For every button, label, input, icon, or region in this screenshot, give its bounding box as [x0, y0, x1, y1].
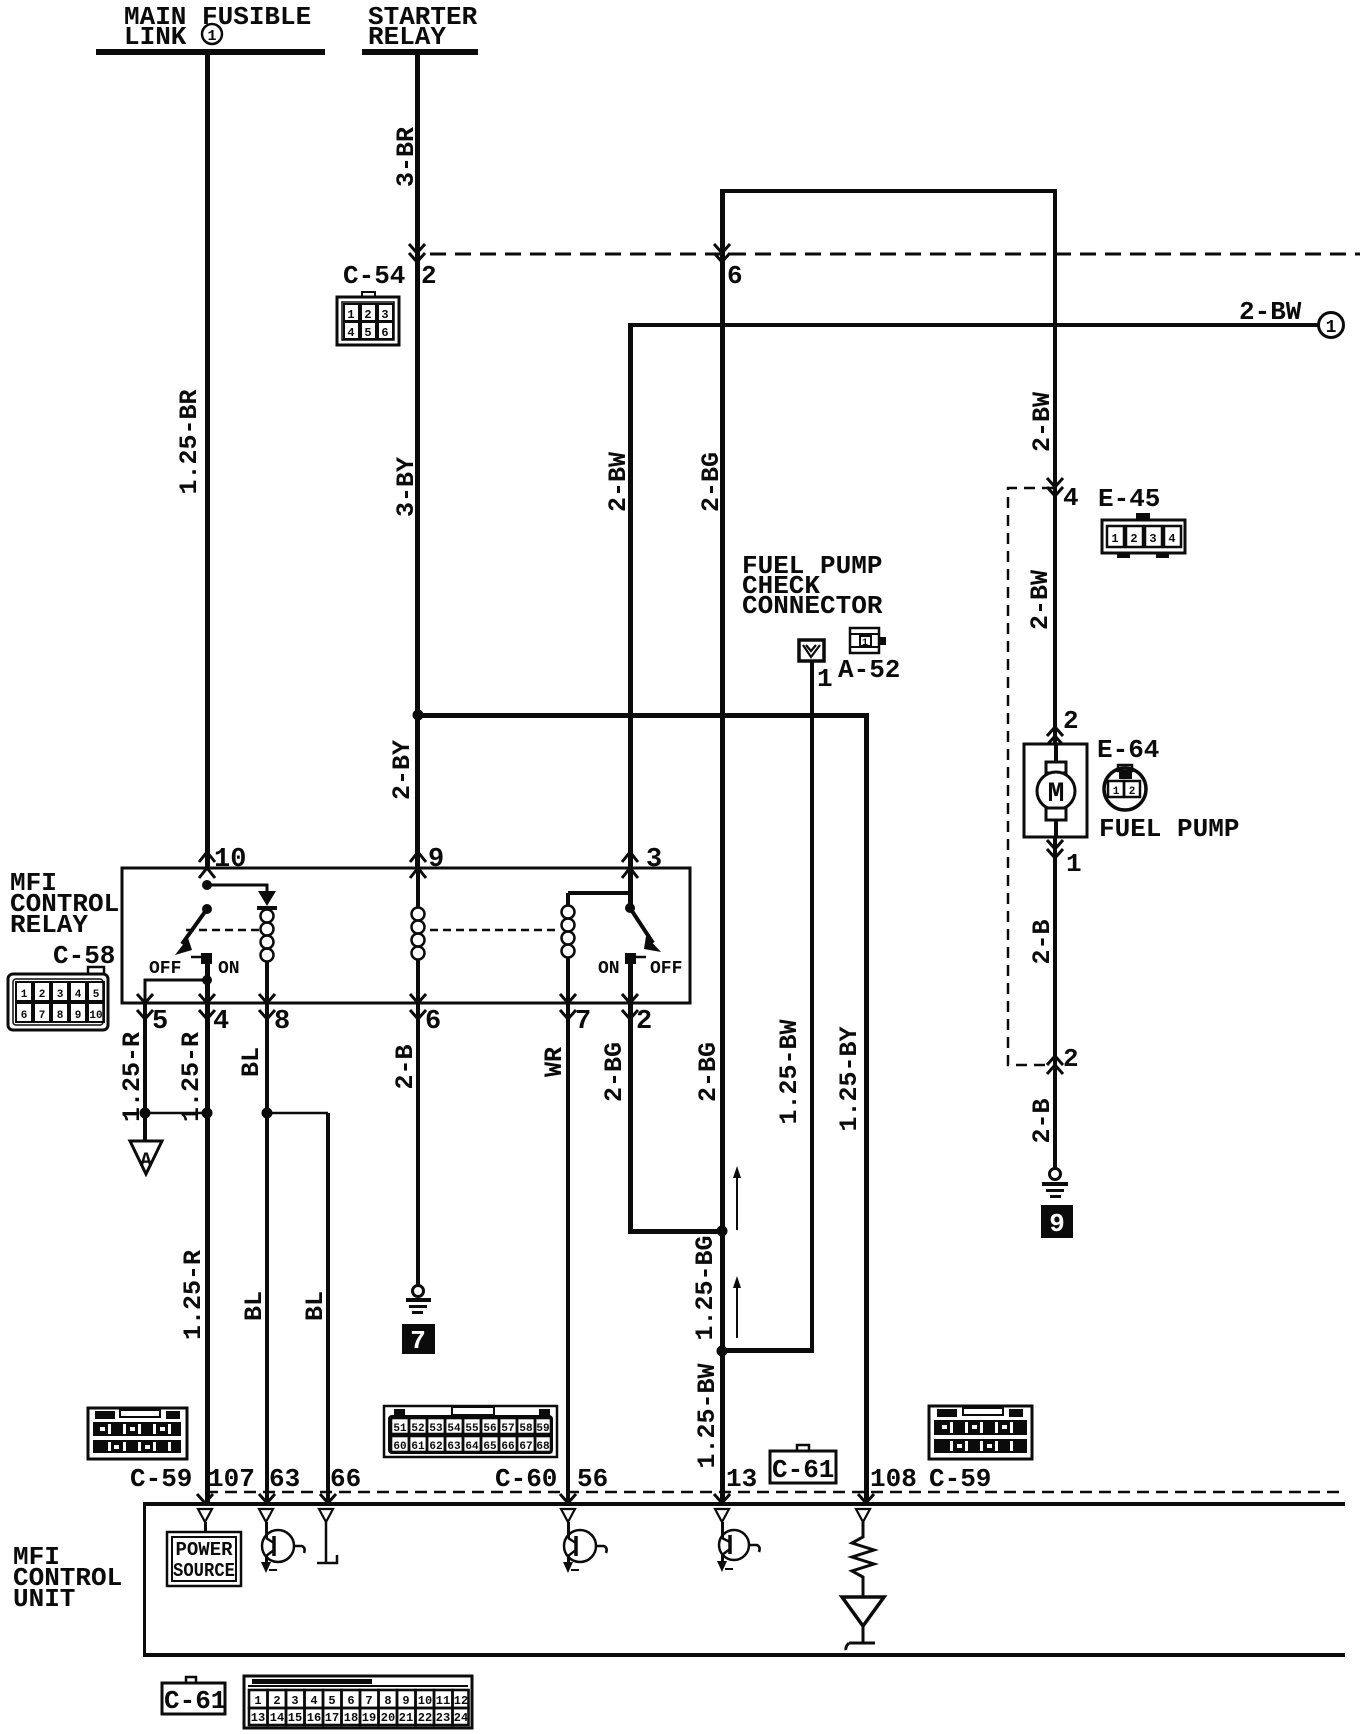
svg-text:3: 3 — [1149, 532, 1156, 546]
svg-text:19: 19 — [362, 1711, 376, 1725]
connector arrow relay pin 7 — [560, 994, 576, 1019]
connector C-54 icon — [337, 292, 399, 345]
wire coil L1 to pin 8 — [265, 961, 269, 1003]
svg-text:2-B: 2-B — [391, 1044, 420, 1089]
svg-text:E-64: E-64 — [1097, 735, 1159, 765]
svg-text:107: 107 — [208, 1464, 255, 1494]
svg-text:54: 54 — [447, 1423, 461, 1435]
wire 1.25-BR main fusible link to relay pin 10 — [205, 55, 210, 868]
svg-text:C-59: C-59 — [929, 1464, 991, 1494]
svg-text:1.25-R: 1.25-R — [179, 1250, 208, 1340]
svg-text:WR: WR — [540, 1047, 569, 1077]
svg-text:C-61: C-61 — [772, 1455, 834, 1485]
off-page connector circle 1 — [1319, 313, 1344, 339]
connector C-61 icon — [244, 1676, 472, 1728]
svg-text:ON: ON — [218, 959, 240, 979]
ground at fuel pump — [1042, 1169, 1068, 1199]
svg-text:RELAY: RELAY — [10, 910, 88, 940]
svg-text:2: 2 — [273, 1694, 280, 1708]
starter relay bus bar — [362, 49, 478, 55]
wire junction horizontal to check connector drop — [722, 1348, 814, 1353]
svg-text:6: 6 — [425, 1007, 441, 1037]
wire end arrow MFI pin 13 — [714, 1494, 730, 1503]
svg-text:2-BW: 2-BW — [1026, 570, 1055, 630]
switch S1 lever with contact arrow — [175, 909, 207, 955]
svg-text:3: 3 — [381, 308, 388, 322]
svg-text:11: 11 — [436, 1694, 450, 1708]
svg-text:53: 53 — [429, 1423, 443, 1435]
svg-text:52: 52 — [411, 1423, 424, 1435]
svg-text:2-BW: 2-BW — [1028, 392, 1057, 452]
wire junction to pin 4 — [205, 980, 210, 1003]
wire 2-BG relay pin 2 down — [628, 1003, 633, 1233]
connector arrow relay pin 10 — [199, 852, 215, 878]
svg-text:2: 2 — [1063, 1044, 1079, 1074]
node junction pin4 wire — [202, 1108, 213, 1119]
power source MAIN FUSIBLE LINK label — [124, 2, 311, 52]
svg-text:1: 1 — [21, 989, 28, 1001]
svg-text:1: 1 — [347, 308, 354, 322]
connector C-60 icon — [384, 1406, 557, 1457]
wire BL relay pin 8 down to MFI pin 63 — [265, 1003, 269, 1503]
connector arrow E-45 pin 4 — [1047, 478, 1063, 496]
svg-text:BL: BL — [240, 1291, 269, 1321]
svg-text:1.25-BY: 1.25-BY — [835, 1026, 864, 1131]
wire 1.25-R relay pin 4 down to MFI pin 107 — [205, 1003, 210, 1503]
svg-text:67: 67 — [519, 1441, 532, 1453]
relay U1 body box C-58 — [122, 868, 690, 1003]
mechanical link dashed S1 to L1 — [186, 929, 259, 932]
transistor Q2 at pin 56 — [563, 1522, 607, 1573]
harness boundary dashed line — [430, 253, 1360, 256]
svg-text:POWER: POWER — [175, 1539, 233, 1561]
wire pin 66 stub with hook — [317, 1522, 337, 1563]
svg-text:10: 10 — [214, 845, 246, 875]
svg-text:16: 16 — [307, 1711, 321, 1725]
svg-text:1: 1 — [817, 664, 833, 694]
wire pin107 to power source — [204, 1522, 207, 1532]
svg-text:2-BG: 2-BG — [697, 452, 726, 512]
main fusible link bus bar — [96, 49, 325, 55]
wire junction to pin 5 — [145, 980, 207, 1003]
svg-text:2: 2 — [421, 261, 437, 291]
svg-text:9: 9 — [1049, 1209, 1065, 1239]
MFI pin 13 input triangle — [715, 1509, 729, 1522]
svg-text:ON: ON — [598, 959, 620, 979]
svg-text:9: 9 — [75, 1010, 82, 1022]
node junction BL split — [262, 1108, 273, 1119]
svg-text:5: 5 — [152, 1007, 168, 1037]
wire end arrow MFI pin 107 — [197, 1494, 213, 1503]
svg-text:4: 4 — [1168, 532, 1175, 546]
MFI pin 107 input triangle — [198, 1509, 212, 1522]
svg-text:24: 24 — [454, 1711, 468, 1725]
svg-text:12: 12 — [454, 1694, 468, 1708]
svg-text:7: 7 — [39, 1010, 46, 1022]
svg-text:8: 8 — [384, 1694, 391, 1708]
connector E-64 icon — [1104, 765, 1146, 810]
connector arrow pin 6 on 2-BG wire — [714, 244, 730, 262]
connector C-61 callout box bottom — [162, 1677, 226, 1716]
svg-text:E-45: E-45 — [1098, 484, 1160, 514]
svg-text:OFF: OFF — [149, 959, 181, 979]
wire from check connector down — [810, 661, 814, 1351]
wire 2-BG corner to pin13 wire — [628, 1229, 724, 1234]
svg-text:1: 1 — [1326, 318, 1337, 338]
wire 2-B relay pin 6 down to ground — [416, 1003, 420, 1286]
svg-text:63: 63 — [269, 1464, 300, 1494]
wire ON contact down to junction — [205, 955, 210, 982]
svg-text:60: 60 — [393, 1441, 406, 1453]
wire 3-BR starter relay down to connector C-54 — [415, 55, 420, 255]
ground reference box 9 — [1041, 1205, 1073, 1239]
svg-text:6: 6 — [347, 1694, 354, 1708]
ground A fusible ground point — [130, 1141, 162, 1174]
svg-text:6: 6 — [381, 326, 388, 340]
svg-text:4: 4 — [310, 1694, 317, 1708]
POWER SOURCE block — [167, 1532, 241, 1586]
svg-text:A-52: A-52 — [838, 655, 900, 685]
connector arrow relay pin 3 — [622, 852, 638, 878]
connector arrow E-64 pin 2 — [1047, 727, 1063, 745]
svg-text:4: 4 — [1063, 483, 1079, 513]
MFI CONTROL UNIT label — [13, 1542, 122, 1614]
svg-text:8: 8 — [274, 1007, 290, 1037]
harness boundary dashed line above MFI control unit — [206, 1491, 1345, 1494]
ground reference box 7 — [402, 1324, 435, 1356]
wire 2-BW vertical from top link down to fuel pump — [1053, 189, 1057, 1173]
svg-text:7: 7 — [410, 1326, 426, 1356]
connector C-59 icon left — [88, 1408, 187, 1459]
svg-text:FUEL PUMP: FUEL PUMP — [1099, 814, 1239, 844]
node junction on 1.25-BG wire — [717, 1226, 728, 1237]
svg-text:61: 61 — [411, 1441, 425, 1453]
svg-text:1: 1 — [1113, 786, 1120, 798]
svg-text:C-61: C-61 — [164, 1686, 226, 1716]
connector C-58 icon — [8, 967, 108, 1030]
svg-text:C-58: C-58 — [53, 941, 115, 971]
MFI CONTROL UNIT box — [143, 1502, 1345, 1657]
contact ON terminal S2 — [625, 953, 636, 964]
wire BL branch down to MFI pin 66 — [326, 1113, 330, 1503]
svg-text:2-B: 2-B — [1028, 919, 1057, 964]
connector arrow relay pin 9 — [410, 852, 426, 878]
svg-text:3-BR: 3-BR — [392, 127, 421, 187]
svg-text:1.25-BW: 1.25-BW — [693, 1363, 722, 1468]
wire pin3 down to S2 pivot — [628, 868, 633, 908]
node junction pin5 wire — [140, 1108, 151, 1119]
svg-text:C-60: C-60 — [495, 1464, 557, 1494]
power source STARTER RELAY label — [368, 2, 478, 52]
wire end arrow MFI pin 66 — [320, 1494, 336, 1503]
wire S2 ON contact to pin 2 — [628, 955, 633, 1003]
MFI pin 63 input triangle — [259, 1509, 273, 1522]
connector A-52 icon — [850, 628, 886, 653]
comparator open triangle at pin 108 — [842, 1597, 884, 1626]
svg-text:1.25-BW: 1.25-BW — [775, 1019, 804, 1124]
mechanical link dashed L2 to S2 — [430, 929, 556, 932]
MFI pin 108 input triangle — [856, 1509, 870, 1522]
svg-text:2: 2 — [636, 1007, 652, 1037]
svg-text:2: 2 — [1130, 532, 1137, 546]
connector arrow relay pin 5 — [137, 994, 153, 1019]
wire end arrow MFI pin 56 — [560, 1494, 576, 1503]
svg-text:7: 7 — [365, 1694, 372, 1708]
svg-text:C-54: C-54 — [343, 261, 405, 291]
svg-text:3-BY: 3-BY — [392, 457, 421, 517]
svg-text:13: 13 — [251, 1711, 265, 1725]
svg-text:5: 5 — [93, 989, 100, 1001]
svg-text:1.25-BR: 1.25-BR — [175, 389, 204, 494]
svg-text:108: 108 — [870, 1464, 917, 1494]
svg-text:23: 23 — [436, 1711, 450, 1725]
svg-text:15: 15 — [288, 1711, 302, 1725]
svg-text:66: 66 — [330, 1464, 361, 1494]
svg-text:62: 62 — [429, 1441, 442, 1453]
wire end arrow MFI pin 108 — [858, 1494, 874, 1503]
svg-text:UNIT: UNIT — [13, 1584, 75, 1614]
connector arrow C-54 pin 2 — [409, 244, 425, 262]
svg-text:5: 5 — [328, 1694, 335, 1708]
svg-text:6: 6 — [21, 1010, 28, 1022]
node junction check connector wire joins pin13 wire — [717, 1346, 728, 1357]
wire 2-BW horizontal to body harness circle 1 — [630, 323, 1318, 327]
wire 2-BG top horizontal link — [722, 189, 1055, 193]
fuel pump motor M1 — [1024, 744, 1087, 837]
connector C-59 icon right — [929, 1406, 1032, 1459]
wire WR relay pin 7 down to MFI pin 56 — [566, 1003, 570, 1503]
svg-text:2-BG: 2-BG — [600, 1042, 629, 1102]
svg-text:65: 65 — [483, 1441, 497, 1453]
wire internal pin10 to diode branch — [207, 885, 267, 893]
svg-text:56: 56 — [483, 1423, 496, 1435]
node pin4/pin5 split — [202, 975, 212, 985]
svg-text:14: 14 — [270, 1711, 284, 1725]
svg-text:C-59: C-59 — [130, 1464, 192, 1494]
connector arrow relay pin 8 — [259, 994, 275, 1019]
connector E-45 icon — [1102, 513, 1185, 558]
svg-text:BL: BL — [301, 1291, 330, 1321]
svg-text:55: 55 — [465, 1423, 479, 1435]
node relay pin10 internal junction — [202, 880, 212, 890]
svg-text:63: 63 — [447, 1441, 461, 1453]
svg-text:2-BG: 2-BG — [694, 1042, 723, 1102]
wire 2-BG vertical from top link down through pin 6 arrow to MFI pin 13 — [720, 189, 725, 1503]
connector arrow E-64 pin 1 — [1047, 840, 1063, 858]
diode D1 in relay — [258, 891, 276, 906]
svg-text:7: 7 — [575, 1007, 591, 1037]
svg-text:56: 56 — [577, 1464, 608, 1494]
wire link between 1.25-R wires — [145, 1112, 207, 1115]
svg-text:66: 66 — [501, 1441, 514, 1453]
svg-text:4: 4 — [75, 989, 82, 1001]
wire 1.25-BY vertical down to MFI pin 108 — [864, 713, 869, 1503]
fuel tank dashed boundary box — [1008, 488, 1053, 1065]
node junction of 3-BY and 2-BY branch — [413, 710, 424, 721]
transistor Q3 at pin 13 — [717, 1522, 760, 1572]
fuel pump check connector terminal icon — [799, 640, 824, 661]
svg-text:1: 1 — [207, 28, 216, 45]
svg-text:2-BW: 2-BW — [1239, 297, 1302, 327]
svg-text:17: 17 — [325, 1711, 339, 1725]
connector arrow pin 2 fuel tank boundary — [1047, 1056, 1063, 1074]
svg-text:51: 51 — [393, 1423, 407, 1435]
connector arrow relay pin 6 — [410, 994, 426, 1019]
ground stub below comparator — [846, 1626, 875, 1650]
svg-text:OFF: OFF — [650, 959, 682, 979]
svg-text:3: 3 — [291, 1694, 298, 1708]
FUEL PUMP CHECK CONNECTOR label — [742, 551, 883, 621]
svg-text:22: 22 — [418, 1711, 432, 1725]
svg-text:59: 59 — [536, 1423, 549, 1435]
svg-text:68: 68 — [536, 1441, 550, 1453]
connector arrow relay pin 4 — [199, 994, 215, 1019]
switch S1 pivot node — [202, 904, 212, 914]
wire end arrow MFI pin 63 — [259, 1494, 275, 1503]
svg-text:4: 4 — [347, 326, 354, 340]
svg-text:9: 9 — [428, 845, 444, 875]
svg-text:2-BY: 2-BY — [388, 740, 417, 800]
connector C-61 callout box — [770, 1445, 836, 1485]
svg-text:SOURCE: SOURCE — [173, 1560, 235, 1582]
current direction arrow — [733, 1166, 741, 1230]
svg-text:21: 21 — [399, 1711, 413, 1725]
svg-text:57: 57 — [501, 1423, 514, 1435]
svg-text:BL: BL — [237, 1047, 266, 1077]
svg-text:5: 5 — [364, 326, 371, 340]
svg-text:2-B: 2-B — [1028, 1098, 1057, 1143]
svg-text:3: 3 — [57, 989, 64, 1001]
svg-text:4: 4 — [213, 1007, 229, 1037]
svg-text:6: 6 — [727, 261, 743, 291]
MFI pin 56 input triangle — [561, 1509, 575, 1522]
transistor Q1 at pin 63 — [261, 1522, 305, 1573]
svg-text:20: 20 — [381, 1711, 395, 1725]
svg-text:9: 9 — [402, 1694, 409, 1708]
svg-text:M: M — [1048, 779, 1065, 810]
svg-text:1: 1 — [1066, 849, 1082, 879]
svg-text:1: 1 — [1111, 532, 1118, 546]
svg-text:2: 2 — [39, 989, 46, 1001]
wire 1.25-R relay pin 5 down to ground — [143, 1003, 147, 1143]
switch S2 pivot node — [625, 903, 635, 913]
svg-text:13: 13 — [726, 1464, 757, 1494]
svg-text:2: 2 — [364, 308, 371, 322]
MFI CONTROL RELAY label — [10, 868, 119, 940]
svg-text:1.25-BG: 1.25-BG — [691, 1235, 720, 1340]
svg-text:1: 1 — [862, 638, 868, 649]
svg-text:1.25-R: 1.25-R — [177, 1032, 206, 1122]
svg-text:3: 3 — [646, 845, 662, 875]
wire relay pin3 to coil L3 top bar — [568, 891, 630, 895]
svg-text:2: 2 — [1063, 706, 1079, 736]
svg-text:CONNECTOR: CONNECTOR — [742, 591, 883, 621]
svg-text:58: 58 — [519, 1423, 533, 1435]
relay coil L2 — [412, 868, 425, 1003]
svg-text:1: 1 — [254, 1694, 261, 1708]
relay coil L1 — [261, 910, 274, 962]
switch S2 lever with contact arrow — [630, 908, 661, 952]
svg-text:18: 18 — [344, 1711, 358, 1725]
resistor R1 at pin 108 — [852, 1522, 874, 1597]
svg-text:10: 10 — [89, 1010, 102, 1022]
svg-text:2: 2 — [1129, 786, 1136, 798]
relay coil L3 — [562, 893, 575, 1003]
wire 3-BY from C-54 pin 2 down to relay pin 9 — [415, 255, 420, 868]
svg-text:LINK: LINK — [124, 22, 187, 52]
wire 2-BY horizontal branch to fuel pump relay feed — [418, 713, 868, 718]
wire BL branch horizontal — [267, 1112, 328, 1115]
wire 2-BW vertical down to relay pin 3 — [628, 323, 633, 868]
MFI pin 66 input triangle — [319, 1509, 333, 1522]
svg-text:2-BW: 2-BW — [604, 452, 633, 512]
current direction arrow — [733, 1276, 741, 1338]
contact ON terminal S1 — [201, 953, 212, 964]
svg-text:A: A — [140, 1150, 152, 1173]
ground at relay coil — [406, 1286, 431, 1315]
svg-text:RELAY: RELAY — [368, 22, 446, 52]
svg-text:64: 64 — [465, 1441, 479, 1453]
svg-text:8: 8 — [57, 1010, 64, 1022]
svg-text:10: 10 — [418, 1694, 432, 1708]
connector arrow relay pin 2 — [622, 994, 638, 1019]
